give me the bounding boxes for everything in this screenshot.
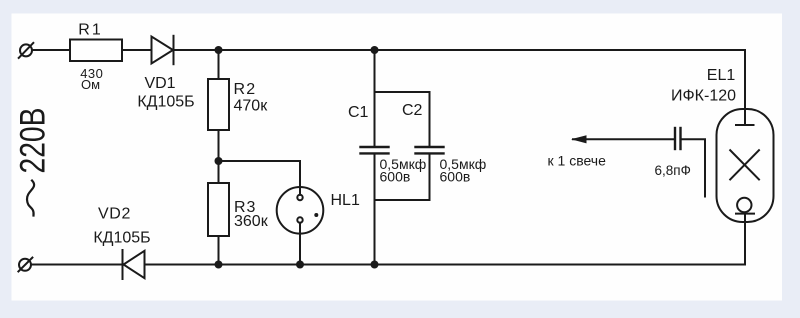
svg-text:220В: 220В bbox=[14, 108, 53, 174]
svg-text:КД105Б: КД105Б bbox=[93, 230, 150, 247]
svg-text:EL1: EL1 bbox=[707, 67, 736, 84]
svg-text:6,8пФ: 6,8пФ bbox=[655, 163, 691, 178]
svg-text:R1: R1 bbox=[78, 22, 102, 39]
svg-text:к 1 свече: к 1 свече bbox=[548, 153, 607, 169]
svg-text:VD1: VD1 bbox=[144, 75, 175, 92]
svg-text:C1: C1 bbox=[348, 104, 369, 121]
svg-text:Ом: Ом bbox=[81, 77, 100, 92]
svg-text:600в: 600в bbox=[440, 169, 471, 185]
svg-text:HL1: HL1 bbox=[331, 192, 360, 209]
svg-text:600в: 600в bbox=[380, 169, 411, 185]
svg-text:VD2: VD2 bbox=[98, 206, 131, 223]
svg-text:ИФК-120: ИФК-120 bbox=[671, 88, 736, 105]
svg-text:КД105Б: КД105Б bbox=[137, 94, 194, 111]
svg-text:R2: R2 bbox=[234, 81, 257, 98]
svg-text:360к: 360к bbox=[234, 213, 269, 230]
svg-text:C2: C2 bbox=[402, 102, 423, 119]
svg-text:470к: 470к bbox=[234, 98, 269, 115]
